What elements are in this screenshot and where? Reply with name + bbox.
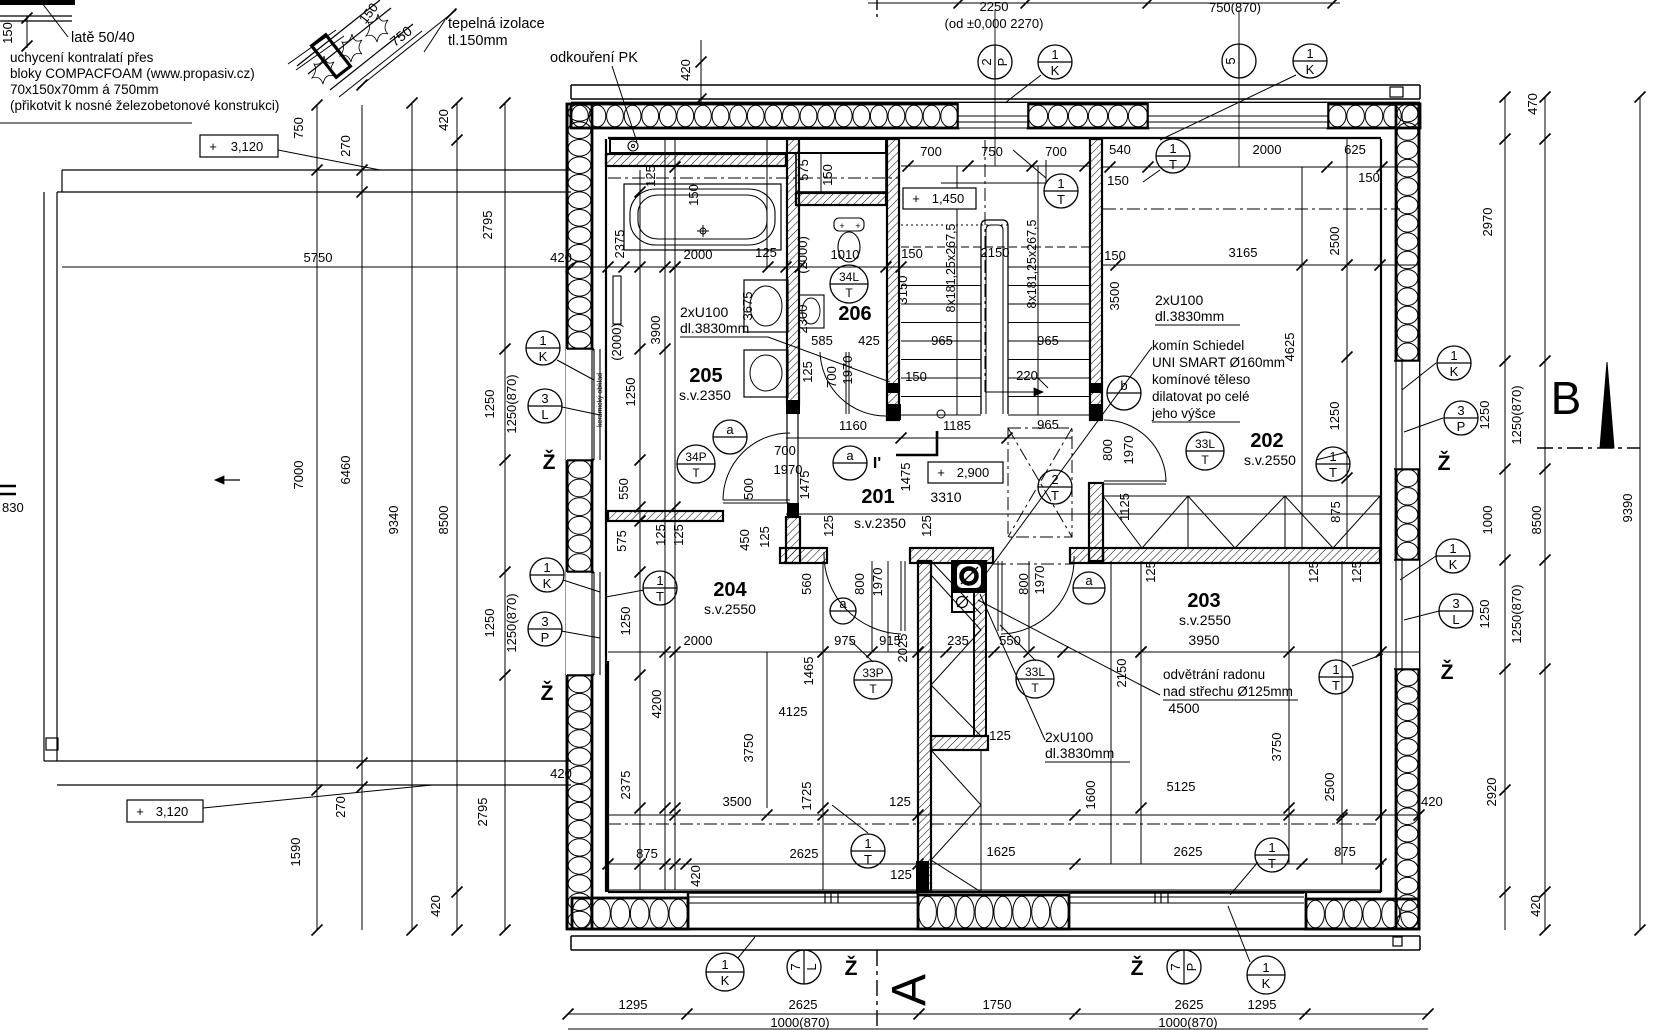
svg-text:+: + bbox=[839, 221, 844, 231]
svg-text:1: 1 bbox=[864, 836, 871, 851]
svg-text:2,900: 2,900 bbox=[957, 465, 990, 480]
svg-text:s.v.2550: s.v.2550 bbox=[704, 601, 756, 617]
svg-text:3: 3 bbox=[541, 614, 548, 629]
svg-text:470: 470 bbox=[1525, 93, 1540, 115]
svg-text:33L: 33L bbox=[1195, 437, 1215, 451]
svg-text:2xU100: 2xU100 bbox=[1045, 729, 1093, 745]
svg-text:203: 203 bbox=[1187, 590, 1220, 612]
svg-text:7: 7 bbox=[1168, 963, 1183, 970]
svg-text:B: B bbox=[1551, 372, 1582, 424]
svg-text:125: 125 bbox=[653, 524, 668, 546]
svg-text:205: 205 bbox=[689, 365, 722, 387]
svg-text:1: 1 bbox=[1169, 141, 1176, 156]
svg-text:560: 560 bbox=[799, 573, 814, 595]
svg-text:420: 420 bbox=[678, 59, 693, 81]
svg-text:K: K bbox=[1306, 62, 1315, 77]
svg-text:T: T bbox=[1057, 192, 1065, 207]
svg-text:204: 204 bbox=[713, 579, 747, 601]
svg-text:450: 450 bbox=[737, 529, 752, 551]
svg-text:965: 965 bbox=[931, 333, 953, 348]
svg-text:s.v.2350: s.v.2350 bbox=[854, 515, 906, 531]
svg-text:125: 125 bbox=[889, 794, 911, 809]
svg-text:6460: 6460 bbox=[338, 456, 353, 485]
svg-text:+: + bbox=[209, 139, 217, 154]
svg-text:575: 575 bbox=[614, 530, 629, 552]
svg-text:700: 700 bbox=[824, 366, 839, 388]
svg-text:70x150x70mm á 750mm: 70x150x70mm á 750mm bbox=[10, 82, 159, 97]
svg-text:800: 800 bbox=[852, 573, 867, 595]
svg-text:a: a bbox=[839, 596, 847, 611]
svg-text:420: 420 bbox=[1421, 794, 1443, 809]
svg-text:9340: 9340 bbox=[386, 506, 401, 535]
svg-text:750: 750 bbox=[981, 144, 1003, 159]
svg-text:+: + bbox=[912, 191, 920, 206]
svg-text:1250(870): 1250(870) bbox=[504, 593, 519, 652]
svg-text:tl.150mm: tl.150mm bbox=[448, 33, 508, 49]
svg-text:P: P bbox=[1457, 419, 1466, 434]
svg-text:1970: 1970 bbox=[1032, 566, 1047, 595]
svg-text:s.v.2550: s.v.2550 bbox=[1179, 612, 1231, 628]
svg-text:I': I' bbox=[873, 455, 881, 472]
svg-text:150: 150 bbox=[1104, 248, 1126, 263]
svg-text:4200: 4200 bbox=[649, 690, 664, 719]
svg-text:125: 125 bbox=[757, 526, 772, 548]
svg-text:2625: 2625 bbox=[789, 997, 818, 1012]
svg-text:odkouření PK: odkouření PK bbox=[550, 50, 638, 66]
svg-text:8x181,25x267,5: 8x181,25x267,5 bbox=[944, 223, 958, 312]
svg-text:1: 1 bbox=[1449, 541, 1456, 556]
svg-text:Ž: Ž bbox=[543, 450, 556, 474]
svg-text:P: P bbox=[995, 58, 1010, 67]
svg-text:T: T bbox=[1268, 856, 1276, 871]
svg-text:1: 1 bbox=[1450, 348, 1457, 363]
svg-text:3750: 3750 bbox=[1269, 733, 1284, 762]
svg-text:2xU100: 2xU100 bbox=[1155, 292, 1203, 308]
svg-text:1: 1 bbox=[1268, 840, 1275, 855]
svg-text:2795: 2795 bbox=[480, 211, 495, 240]
svg-text:dl.3830mm: dl.3830mm bbox=[680, 320, 749, 336]
svg-text:1625: 1625 bbox=[987, 844, 1016, 859]
svg-text:UNI SMART Ø160mm: UNI SMART Ø160mm bbox=[1152, 355, 1285, 370]
svg-text:33P: 33P bbox=[862, 666, 883, 680]
svg-text:1,450: 1,450 bbox=[932, 191, 965, 206]
svg-text:1: 1 bbox=[1057, 176, 1064, 191]
svg-text:(2000): (2000) bbox=[609, 323, 624, 361]
svg-text:2: 2 bbox=[979, 58, 994, 65]
svg-text:420: 420 bbox=[688, 865, 703, 887]
svg-text:150: 150 bbox=[905, 369, 927, 384]
svg-text:1750: 1750 bbox=[983, 997, 1012, 1012]
svg-text:220: 220 bbox=[1016, 368, 1038, 383]
svg-text:420: 420 bbox=[1528, 895, 1543, 917]
svg-text:Ž: Ž bbox=[1441, 660, 1454, 684]
svg-text:2625: 2625 bbox=[1175, 997, 1204, 1012]
svg-text:+: + bbox=[937, 465, 945, 480]
svg-text:8500: 8500 bbox=[1529, 506, 1544, 535]
svg-text:2300: 2300 bbox=[795, 305, 810, 334]
svg-text:830: 830 bbox=[2, 500, 24, 515]
svg-text:3,120: 3,120 bbox=[156, 804, 189, 819]
svg-text:33L: 33L bbox=[1025, 665, 1045, 679]
svg-text:750(870): 750(870) bbox=[1209, 0, 1261, 15]
svg-text:K: K bbox=[1450, 364, 1459, 379]
svg-text:dl.3830mm: dl.3830mm bbox=[1045, 745, 1114, 761]
svg-text:3: 3 bbox=[1452, 596, 1459, 611]
svg-text:1465: 1465 bbox=[801, 657, 816, 686]
svg-text:1: 1 bbox=[1306, 46, 1313, 61]
svg-text:2795: 2795 bbox=[475, 798, 490, 827]
svg-text:T: T bbox=[869, 682, 877, 696]
svg-text:+: + bbox=[136, 804, 144, 819]
svg-text:a: a bbox=[1085, 573, 1093, 588]
svg-text:1970: 1970 bbox=[1121, 436, 1136, 465]
svg-text:3500: 3500 bbox=[723, 794, 752, 809]
svg-text:K: K bbox=[543, 576, 552, 591]
svg-text:3: 3 bbox=[541, 391, 548, 406]
svg-text:9390: 9390 bbox=[1620, 494, 1635, 523]
svg-text:7: 7 bbox=[788, 963, 803, 970]
svg-text:3165: 3165 bbox=[1229, 245, 1258, 260]
svg-text:34L: 34L bbox=[839, 270, 859, 284]
svg-text:T: T bbox=[1169, 157, 1177, 172]
svg-text:1: 1 bbox=[539, 333, 546, 348]
svg-text:150: 150 bbox=[901, 246, 923, 261]
svg-text:s.v.2350: s.v.2350 bbox=[679, 387, 731, 403]
svg-text:7000: 7000 bbox=[291, 461, 306, 490]
svg-text:1: 1 bbox=[656, 573, 663, 588]
svg-text:965: 965 bbox=[1037, 417, 1059, 432]
svg-text:700: 700 bbox=[1045, 144, 1067, 159]
svg-text:5: 5 bbox=[1223, 57, 1238, 64]
svg-text:3500: 3500 bbox=[1107, 282, 1122, 311]
svg-text:1250: 1250 bbox=[618, 607, 633, 636]
svg-text:P: P bbox=[541, 630, 550, 645]
svg-text:575: 575 bbox=[796, 159, 811, 181]
svg-text:4500: 4500 bbox=[1168, 700, 1199, 716]
svg-text:800: 800 bbox=[1016, 573, 1031, 595]
svg-text:3,120: 3,120 bbox=[231, 139, 264, 154]
svg-text:3900: 3900 bbox=[648, 316, 663, 345]
svg-text:150: 150 bbox=[1107, 173, 1129, 188]
svg-text:L: L bbox=[804, 963, 819, 970]
svg-text:K: K bbox=[1449, 557, 1458, 572]
svg-text:2625: 2625 bbox=[790, 846, 819, 861]
svg-text:270: 270 bbox=[338, 135, 353, 157]
svg-text:1000(870): 1000(870) bbox=[770, 1015, 829, 1030]
svg-text:2625: 2625 bbox=[1174, 844, 1203, 859]
svg-text:1250: 1250 bbox=[482, 609, 497, 638]
svg-text:420: 420 bbox=[550, 250, 572, 265]
svg-text:125: 125 bbox=[890, 867, 912, 882]
svg-text:K: K bbox=[539, 349, 548, 364]
svg-text:odvětrání radonu: odvětrání radonu bbox=[1163, 667, 1265, 682]
svg-text:875: 875 bbox=[1334, 844, 1356, 859]
svg-text:T: T bbox=[1051, 488, 1059, 503]
svg-text:1475: 1475 bbox=[898, 463, 913, 492]
svg-text:1250(870): 1250(870) bbox=[1509, 385, 1524, 444]
svg-text:625: 625 bbox=[1344, 142, 1366, 157]
svg-text:420: 420 bbox=[550, 766, 572, 781]
svg-text:34P: 34P bbox=[685, 450, 706, 464]
svg-text:1: 1 bbox=[1332, 662, 1339, 677]
svg-text:8x181,25x267,5: 8x181,25x267,5 bbox=[1025, 219, 1039, 308]
svg-text:jeho výšce: jeho výšce bbox=[1151, 406, 1216, 421]
svg-text:T: T bbox=[1329, 465, 1337, 480]
svg-text:1600: 1600 bbox=[1083, 781, 1098, 810]
svg-text:Ž: Ž bbox=[541, 681, 554, 705]
svg-text:4125: 4125 bbox=[779, 704, 808, 719]
svg-text:T: T bbox=[1332, 678, 1340, 693]
svg-text:1010: 1010 bbox=[831, 247, 860, 262]
svg-text:1970: 1970 bbox=[840, 356, 855, 385]
svg-text:a: a bbox=[846, 448, 854, 463]
svg-text:1250: 1250 bbox=[482, 390, 497, 419]
svg-text:700: 700 bbox=[774, 443, 796, 458]
svg-text:1000(870): 1000(870) bbox=[1158, 1015, 1217, 1030]
svg-text:125: 125 bbox=[800, 361, 815, 383]
svg-text:2920: 2920 bbox=[1484, 778, 1499, 807]
svg-text:585: 585 bbox=[811, 333, 833, 348]
svg-text:202: 202 bbox=[1250, 430, 1283, 452]
svg-text:2: 2 bbox=[1051, 472, 1058, 487]
svg-text:1250: 1250 bbox=[623, 378, 638, 407]
svg-text:270: 270 bbox=[333, 796, 348, 818]
svg-text:1: 1 bbox=[1051, 47, 1058, 62]
svg-text:2500: 2500 bbox=[1327, 227, 1342, 256]
svg-text:1725: 1725 bbox=[799, 782, 814, 811]
svg-text:5125: 5125 bbox=[1167, 779, 1196, 794]
svg-text:3: 3 bbox=[1457, 403, 1464, 418]
svg-text:s.v.2550: s.v.2550 bbox=[1244, 452, 1296, 468]
svg-text:nad střechu Ø125mm: nad střechu Ø125mm bbox=[1163, 684, 1293, 699]
svg-text:420: 420 bbox=[436, 109, 451, 131]
svg-text:425: 425 bbox=[858, 333, 880, 348]
svg-text:T: T bbox=[864, 852, 872, 867]
svg-text:L: L bbox=[1452, 612, 1459, 627]
svg-text:T: T bbox=[845, 286, 853, 300]
svg-text:1125: 1125 bbox=[1117, 493, 1132, 521]
svg-text:K: K bbox=[721, 973, 730, 988]
svg-text:+: + bbox=[855, 221, 860, 231]
svg-text:125: 125 bbox=[1306, 561, 1321, 583]
svg-text:1: 1 bbox=[543, 560, 550, 575]
svg-text:1250: 1250 bbox=[1327, 402, 1342, 431]
svg-text:1250(870): 1250(870) bbox=[504, 374, 519, 433]
svg-text:1185: 1185 bbox=[943, 418, 971, 433]
svg-text:dl.3830mm: dl.3830mm bbox=[1155, 308, 1224, 324]
svg-text:235: 235 bbox=[947, 633, 969, 648]
svg-text:1: 1 bbox=[721, 957, 728, 972]
svg-text:2150: 2150 bbox=[1114, 659, 1129, 688]
svg-text:2500: 2500 bbox=[1322, 773, 1337, 802]
svg-text:150: 150 bbox=[820, 164, 835, 186]
svg-text:500: 500 bbox=[741, 478, 756, 500]
svg-text:3950: 3950 bbox=[1188, 632, 1219, 648]
svg-text:1: 1 bbox=[1262, 960, 1269, 975]
svg-text:dilatovat po celé: dilatovat po celé bbox=[1152, 389, 1250, 404]
svg-text:P: P bbox=[1184, 963, 1199, 972]
svg-text:125: 125 bbox=[671, 524, 686, 546]
svg-text:3675: 3675 bbox=[740, 292, 755, 321]
svg-text:1250: 1250 bbox=[1477, 600, 1492, 629]
svg-text:206: 206 bbox=[838, 303, 871, 325]
svg-text:1160: 1160 bbox=[839, 418, 867, 433]
svg-text:uchycení kontralatí přes: uchycení kontralatí přes bbox=[10, 50, 154, 65]
svg-text:3150: 3150 bbox=[895, 276, 910, 305]
svg-text:1000: 1000 bbox=[1480, 506, 1495, 535]
svg-text:975: 975 bbox=[834, 633, 856, 648]
svg-text:L: L bbox=[541, 407, 548, 422]
svg-text:125: 125 bbox=[919, 515, 934, 537]
svg-text:2375: 2375 bbox=[612, 230, 627, 259]
svg-text:Ž: Ž bbox=[1438, 451, 1451, 475]
svg-text:K: K bbox=[1051, 63, 1060, 78]
svg-text:125: 125 bbox=[989, 728, 1011, 743]
svg-text:125: 125 bbox=[643, 165, 658, 187]
svg-text:125: 125 bbox=[821, 515, 836, 537]
svg-text:2000: 2000 bbox=[684, 247, 713, 262]
svg-text:2970: 2970 bbox=[1480, 208, 1495, 237]
svg-text:965: 965 bbox=[1037, 333, 1059, 348]
svg-text:1590: 1590 bbox=[288, 838, 303, 867]
svg-text:b: b bbox=[1120, 378, 1127, 393]
svg-text:1970: 1970 bbox=[870, 568, 885, 597]
svg-text:1250(870): 1250(870) bbox=[1509, 584, 1524, 643]
svg-text:(2000): (2000) bbox=[795, 236, 810, 274]
svg-text:201: 201 bbox=[861, 486, 894, 508]
svg-text:420: 420 bbox=[428, 895, 443, 917]
svg-text:a: a bbox=[726, 422, 734, 437]
svg-text:3750: 3750 bbox=[741, 734, 756, 763]
svg-text:(od ±0,000 2270): (od ±0,000 2270) bbox=[945, 16, 1044, 31]
svg-text:2250: 2250 bbox=[980, 0, 1009, 14]
svg-text:2375: 2375 bbox=[618, 771, 633, 800]
svg-text:875: 875 bbox=[636, 846, 658, 861]
svg-text:Ž: Ž bbox=[845, 956, 858, 980]
svg-text:800: 800 bbox=[1100, 439, 1115, 461]
svg-text:2000: 2000 bbox=[1253, 142, 1282, 157]
svg-text:T: T bbox=[1031, 681, 1039, 695]
svg-text:(přikotvit k nosné železobe: (přikotvit k nosné železobetonové konstr… bbox=[10, 98, 279, 113]
svg-text:T: T bbox=[656, 589, 664, 604]
svg-text:125: 125 bbox=[1143, 561, 1158, 583]
svg-text:1475: 1475 bbox=[797, 471, 812, 500]
svg-text:3310: 3310 bbox=[930, 489, 961, 505]
svg-text:latě 50/40: latě 50/40 bbox=[71, 30, 135, 46]
svg-text:keramický obklad: keramický obklad bbox=[597, 373, 604, 427]
svg-text:150: 150 bbox=[1358, 170, 1380, 185]
svg-text:550: 550 bbox=[616, 478, 631, 500]
svg-text:8500: 8500 bbox=[436, 506, 451, 535]
svg-text:150: 150 bbox=[0, 22, 15, 44]
svg-text:5750: 5750 bbox=[304, 250, 333, 265]
svg-text:Ž: Ž bbox=[1131, 956, 1144, 980]
svg-text:komín Schiedel: komín Schiedel bbox=[1152, 338, 1244, 353]
svg-text:K: K bbox=[1262, 976, 1271, 991]
svg-text:T: T bbox=[1201, 453, 1209, 467]
svg-text:T: T bbox=[692, 466, 700, 480]
svg-text:2150: 2150 bbox=[981, 245, 1010, 260]
svg-text:komínové těleso: komínové těleso bbox=[1152, 372, 1250, 387]
svg-text:1295: 1295 bbox=[1248, 997, 1277, 1012]
svg-text:tepelná izolace: tepelná izolace bbox=[448, 16, 545, 32]
svg-text:1295: 1295 bbox=[619, 997, 648, 1012]
svg-text:bloky COMPACFOAM (www.propas: bloky COMPACFOAM (www.propasiv.cz) bbox=[10, 66, 255, 81]
svg-text:2025: 2025 bbox=[895, 634, 910, 663]
svg-text:700: 700 bbox=[920, 144, 942, 159]
svg-text:125: 125 bbox=[1349, 561, 1364, 583]
svg-text:2000: 2000 bbox=[684, 633, 713, 648]
svg-text:750: 750 bbox=[291, 117, 306, 139]
svg-text:2xU100: 2xU100 bbox=[680, 304, 728, 320]
svg-text:A: A bbox=[883, 974, 936, 1006]
svg-text:125: 125 bbox=[755, 245, 777, 260]
svg-text:875: 875 bbox=[1328, 501, 1343, 523]
svg-text:1250: 1250 bbox=[1477, 401, 1492, 430]
svg-text:150: 150 bbox=[686, 184, 701, 206]
svg-text:540: 540 bbox=[1109, 142, 1131, 157]
